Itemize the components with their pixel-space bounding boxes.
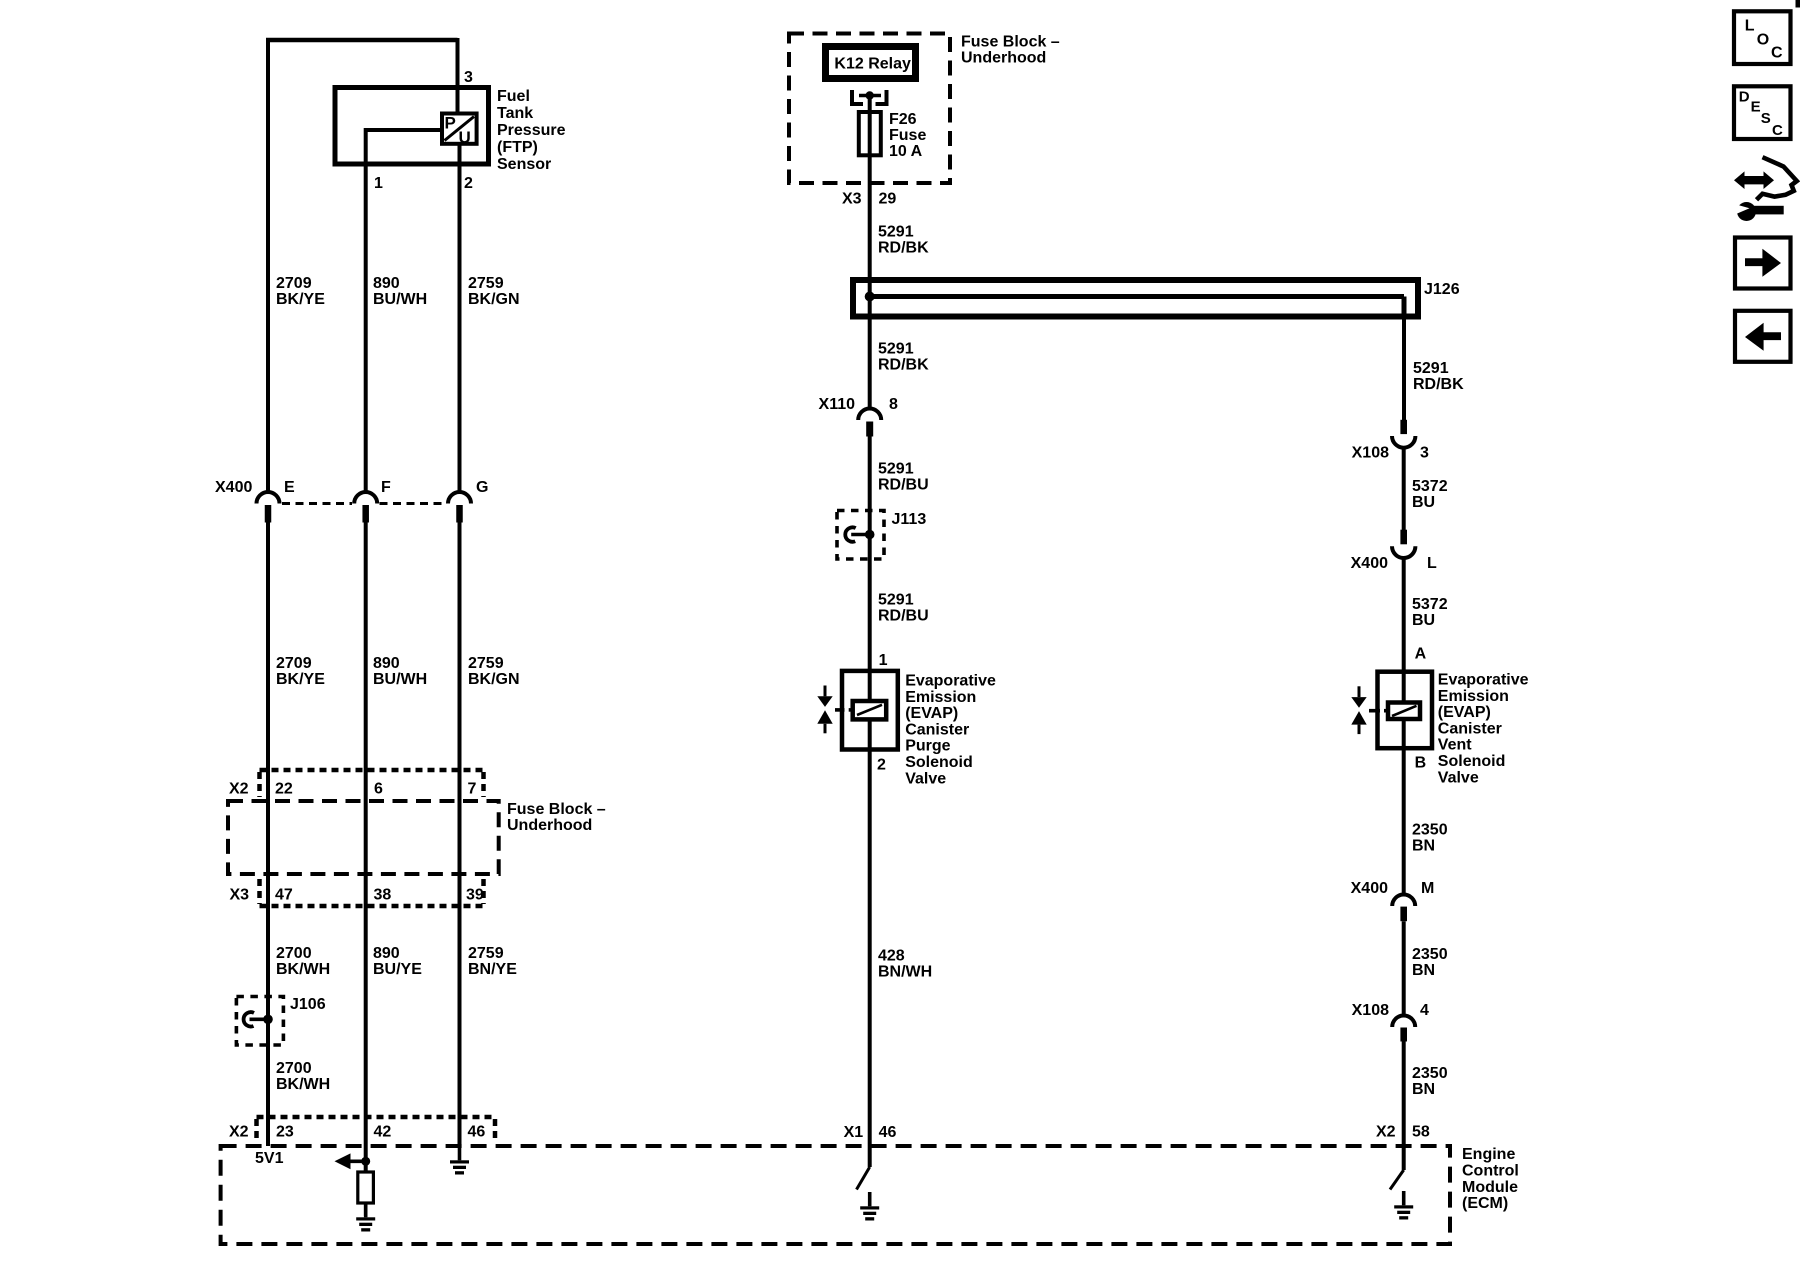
junction node on J126 bus [865, 292, 875, 302]
svg-text:X110: X110 [819, 396, 856, 413]
svg-text:2: 2 [877, 757, 886, 774]
connector X3 strip right stub [481, 879, 486, 904]
connector X2 strip left stub [257, 772, 262, 797]
svg-text:J106: J106 [290, 996, 326, 1013]
connector X400 pin M terminal [1400, 907, 1407, 922]
5V reference arrow (left) [335, 1153, 366, 1169]
svg-text:3: 3 [1420, 445, 1429, 462]
svg-text:L: L [1427, 555, 1437, 572]
Engine Control Module (ECM) dashed box [221, 1146, 1450, 1244]
connector X2 dotted strip (ECM) [257, 1115, 496, 1120]
wire 5291 RD/BK bus to X108 [1402, 317, 1406, 421]
connector X400 pin G arc [448, 492, 471, 504]
svg-text:D: D [1739, 89, 1750, 106]
svg-text:46: 46 [468, 1123, 486, 1140]
ground (ECM internal, vent driver) [1394, 1191, 1413, 1220]
switch blade (ECM driver, purge) [857, 1167, 870, 1190]
svg-text:38: 38 [374, 887, 392, 904]
wire 5291 RD/BU to purge valve [868, 437, 872, 702]
purge valve coil diagonal [857, 705, 882, 715]
connector X400 pin L arc [1392, 546, 1415, 558]
svg-text:X400: X400 [1351, 880, 1388, 897]
svg-text:X400: X400 [1351, 555, 1388, 572]
icon LOC box [1734, 11, 1791, 64]
X400 connector dashed link E-F [282, 502, 352, 505]
connector X110 arc [858, 409, 881, 421]
svg-text:42: 42 [374, 1123, 392, 1140]
FTP sensor box U7 [335, 88, 489, 165]
svg-text:X108: X108 [1352, 1002, 1389, 1019]
svg-text:3: 3 [464, 69, 473, 86]
svg-text:A: A [1415, 646, 1427, 663]
wire FTP pin1 (890 BU/WH) [366, 130, 442, 491]
wire FTP pin3 loop top horizontal [266, 38, 458, 43]
P/U box diagonal [445, 117, 475, 141]
svg-text:7: 7 [468, 781, 477, 798]
connector X400 pin F arc [354, 492, 377, 504]
junction node on wire 42 [361, 1157, 370, 1166]
svg-text:X108: X108 [1352, 445, 1389, 462]
wire 2759 BK/GN-BN/YE lower segment [458, 523, 462, 1147]
svg-text:Fuse Block –Underhood: Fuse Block –Underhood [507, 801, 606, 834]
svg-text:X2: X2 [1376, 1124, 1396, 1141]
svg-text:23: 23 [276, 1123, 294, 1140]
svg-text:X1: X1 [844, 1124, 864, 1141]
connector X400 pin L terminal [1400, 530, 1407, 545]
vent valve pneumatic valve symbol [1351, 686, 1388, 734]
svg-text:E: E [1751, 99, 1761, 116]
svg-text:8: 8 [889, 396, 898, 413]
relay K12 contact bracket [852, 90, 887, 104]
fuse F26 10A [859, 112, 881, 155]
icon next-page arrow box [1735, 238, 1791, 289]
wire 2709 BK/YE lower segment [266, 523, 270, 1016]
ECM X2 strip right stub [493, 1119, 498, 1143]
svg-text:46: 46 [879, 1124, 897, 1141]
wire 890 BU/WH-BU/YE lower segment [364, 523, 368, 1147]
svg-text:6: 6 [374, 781, 383, 798]
connector X400 pin E terminal [265, 505, 272, 523]
wire 2350 BN mid [1402, 921, 1406, 1016]
wire 5372 BU lower to vent valve [1402, 558, 1406, 703]
resistor (ECM internal pull-up) [358, 1172, 374, 1203]
svg-text:4: 4 [1420, 1002, 1429, 1019]
connector X2 strip right stub [481, 772, 486, 797]
wire 5291 RD/BK from relay through fuse F26 to J126 [868, 96, 872, 410]
wire resistor to ground [364, 1203, 368, 1216]
connector X400 pin G terminal [456, 505, 463, 523]
EVAP canister vent solenoid valve box [1378, 672, 1433, 749]
icon prev-page arrow box [1735, 311, 1791, 362]
svg-text:39: 39 [466, 887, 484, 904]
connector X2 dotted strip (fuse block) [260, 768, 484, 773]
svg-text:X2: X2 [229, 781, 249, 798]
connector X400 pin E arc [257, 492, 280, 504]
svg-text:P: P [445, 114, 456, 133]
EVAP canister purge solenoid valve box [842, 671, 898, 750]
wire 5372 BU upper [1402, 448, 1406, 530]
connector X3 strip left stub [257, 879, 262, 904]
connector X110 pin terminal [866, 422, 873, 437]
connector X108 pin 4 terminal [1400, 1028, 1407, 1042]
purge valve pneumatic valve symbol [817, 686, 852, 734]
splice pack J126 bus bar [853, 280, 1418, 317]
purge valve solenoid coil [853, 701, 887, 719]
vent valve solenoid coil [1388, 703, 1420, 720]
wire 42 inside ECM [364, 1146, 368, 1172]
svg-text:M: M [1421, 880, 1434, 897]
wire FTP pin2 (2759 BK/GN) [458, 144, 462, 491]
ground (ECM internal, resistor) [356, 1203, 375, 1232]
connector X3 dotted strip (fuse block) [260, 904, 484, 909]
wire 2700 BK/WH below J106 [266, 1023, 270, 1146]
X400 connector dashed link F-G [380, 502, 447, 505]
wire FTP pin3 drop into sensor [456, 38, 460, 114]
page corner mark [1796, 0, 1800, 8]
svg-text:F: F [381, 479, 391, 496]
wire 2350 BN vent valve to X400-M [1402, 719, 1406, 895]
svg-text:Fuse Block –Underhood: Fuse Block –Underhood [961, 33, 1060, 66]
node relay output [866, 91, 874, 99]
svg-text:X3: X3 [230, 887, 250, 904]
svg-text:K12 Relay: K12 Relay [834, 56, 911, 73]
svg-text:J126: J126 [1424, 281, 1460, 298]
svg-text:G: G [476, 479, 488, 496]
svg-text:5V1: 5V1 [255, 1150, 284, 1167]
svg-text:X400: X400 [215, 479, 252, 496]
relay K12 box [826, 47, 916, 79]
connector X108 pin 4 arc [1392, 1016, 1415, 1027]
svg-text:L: L [1745, 18, 1755, 35]
icon harness routing (arrows + wrench) [1734, 157, 1797, 221]
Fuse Block - Underhood dashed box (left) [228, 801, 499, 874]
svg-text:X2: X2 [229, 1123, 249, 1140]
svg-text:X3: X3 [842, 191, 862, 208]
connector X400 pin F terminal [362, 505, 369, 523]
svg-text:58: 58 [1412, 1124, 1430, 1141]
svg-text:2: 2 [464, 175, 473, 192]
Fuse Block - Underhood dashed box (top) [789, 34, 950, 184]
ground (ECM pin 46) [450, 1146, 469, 1175]
ground (ECM internal, purge driver) [860, 1192, 879, 1221]
svg-text:22: 22 [275, 781, 293, 798]
connector X108 pin 3 terminal [1400, 420, 1407, 434]
vent valve coil diagonal [1392, 706, 1417, 716]
svg-text:B: B [1415, 755, 1427, 772]
svg-text:1: 1 [374, 175, 383, 192]
splice J106 [236, 997, 283, 1046]
svg-text:1: 1 [879, 652, 888, 669]
connector X400 pin M arc [1392, 895, 1415, 907]
wire 2350 BN to ECM [1402, 1042, 1406, 1171]
svg-text:J113: J113 [892, 511, 927, 528]
P/U transducer box [442, 114, 477, 144]
splice J113 [837, 511, 884, 560]
wire 428 BN/WH purge valve to ECM [868, 719, 872, 1167]
svg-text:S: S [1761, 110, 1771, 127]
svg-text:O: O [1757, 31, 1769, 48]
svg-text:29: 29 [879, 191, 897, 208]
switch blade (ECM driver, vent) [1390, 1170, 1404, 1190]
icon DESC box [1734, 86, 1791, 139]
wire FTP pin3 loop left vertical (2709 BK/YE top) [266, 40, 270, 491]
svg-text:C: C [1772, 122, 1783, 139]
svg-text:47: 47 [275, 887, 293, 904]
connector X108 pin 3 arc [1392, 436, 1415, 448]
svg-text:C: C [1771, 44, 1783, 61]
ECM X2 strip left stub [254, 1119, 259, 1143]
svg-text:E: E [284, 479, 295, 496]
